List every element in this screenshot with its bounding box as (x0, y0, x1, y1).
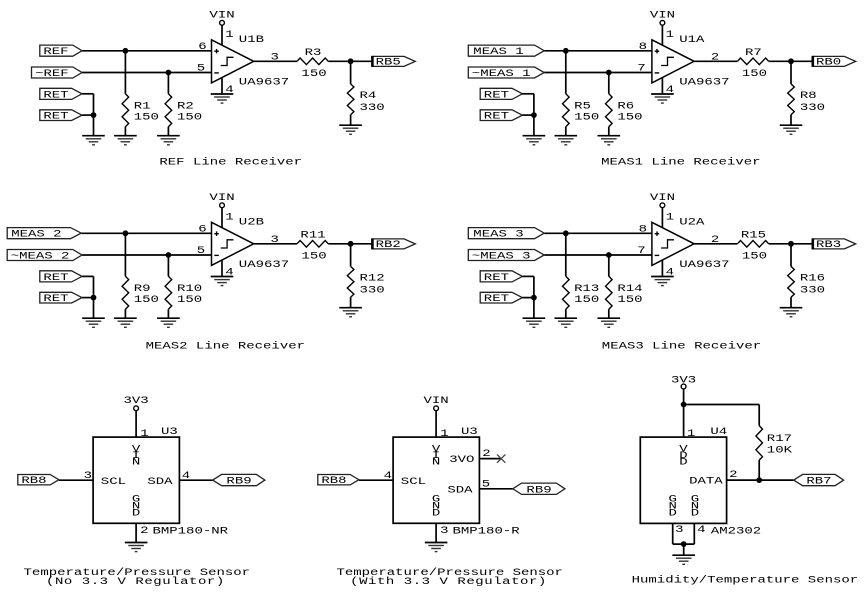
resistor R16 (788, 266, 795, 297)
svg-text:RB8: RB8 (21, 474, 46, 486)
junction (348, 58, 354, 64)
svg-text:7: 7 (637, 62, 645, 74)
input flag RET (40, 271, 82, 283)
wire (167, 73, 169, 94)
label R14 value 150 (617, 283, 642, 306)
junction (166, 252, 172, 258)
svg-text:150: 150 (742, 250, 767, 262)
wire (769, 60, 813, 62)
svg-text:UA9637: UA9637 (239, 259, 289, 271)
svg-text:UA9637: UA9637 (239, 76, 289, 88)
input flag MEAS 1 (468, 45, 544, 57)
wire (81, 232, 211, 234)
wire (544, 232, 652, 234)
svg-text:2: 2 (711, 51, 719, 63)
wire (254, 60, 297, 62)
resistor R5 (563, 94, 570, 127)
svg-text:MEAS 3: MEAS 3 (473, 228, 523, 240)
input flag RET (40, 88, 82, 100)
svg-text:150: 150 (301, 68, 326, 80)
output flag RB0 (813, 56, 856, 68)
wire (124, 51, 126, 94)
svg-text:330: 330 (360, 284, 385, 296)
svg-text:U1A: U1A (679, 34, 705, 46)
wire (221, 25, 223, 45)
svg-text:R6: R6 (617, 100, 634, 112)
svg-text:150: 150 (177, 111, 202, 123)
wire (124, 233, 126, 276)
junction (606, 70, 612, 76)
wire (328, 60, 372, 62)
ground (211, 277, 234, 286)
junction (348, 241, 354, 247)
svg-text:Humidity/Temperature Sensor: Humidity/Temperature Sensor (632, 574, 859, 586)
wire (565, 233, 567, 276)
ground (672, 555, 695, 564)
svg-text:RET: RET (484, 271, 509, 283)
junction (166, 70, 172, 76)
label R2 value 150 (177, 100, 202, 123)
svg-text:RET: RET (484, 89, 509, 101)
label VIN pin name (stacked) (132, 443, 141, 468)
svg-text:U3: U3 (461, 425, 478, 437)
power symbol VIN (650, 192, 675, 208)
svg-text:MEAS2 Line Receiver: MEAS2 Line Receiver (146, 340, 305, 352)
svg-text:UA9637: UA9637 (679, 259, 729, 271)
svg-text:2: 2 (140, 524, 148, 536)
wire (350, 297, 352, 308)
resistor R15 (737, 241, 768, 248)
svg-text:10K: 10K (767, 444, 793, 456)
svg-text:RET: RET (484, 110, 509, 122)
svg-text:4: 4 (384, 469, 392, 481)
label GND pin name (stacked) (432, 493, 440, 519)
ground (780, 308, 803, 317)
wire (124, 127, 126, 136)
wire (544, 50, 652, 52)
svg-text:R13: R13 (574, 283, 599, 295)
resistor R10 (165, 276, 172, 309)
input flag ~MEAS 2 (7, 250, 82, 262)
wire (93, 276, 95, 318)
svg-text:RET: RET (484, 292, 509, 304)
wire (522, 93, 534, 95)
wire (328, 243, 372, 245)
label VDD pin name (stacked) (679, 443, 688, 468)
svg-text:1: 1 (666, 29, 674, 41)
svg-text:MEAS 2: MEAS 2 (11, 228, 61, 240)
svg-text:R8: R8 (800, 90, 817, 102)
svg-text:150: 150 (177, 294, 202, 306)
ground (523, 136, 546, 145)
svg-text:RB2: RB2 (376, 238, 401, 250)
svg-text:DATA: DATA (689, 475, 723, 487)
op-amp U2A (652, 222, 694, 265)
svg-text:6: 6 (198, 41, 206, 53)
junction (531, 112, 537, 118)
svg-text:R16: R16 (800, 272, 825, 284)
svg-text:1: 1 (666, 211, 674, 223)
bidirectional flag RB7 (794, 474, 844, 487)
svg-text:RB0: RB0 (816, 56, 841, 68)
wire (221, 208, 223, 228)
svg-text:3: 3 (270, 51, 278, 63)
resistor R14 (606, 276, 613, 309)
resistor R12 (347, 266, 354, 297)
op-amp U1A (652, 40, 694, 83)
wire (608, 127, 610, 136)
svg-text:VIN: VIN (424, 394, 449, 406)
wire (693, 523, 695, 544)
wire (82, 93, 94, 95)
svg-text:RET: RET (43, 89, 68, 101)
input flag RET (40, 292, 82, 304)
input flag MEAS 3 (468, 228, 544, 240)
output flag RB5 (372, 56, 415, 68)
input flag RET (40, 110, 82, 122)
wire (221, 77, 223, 94)
wire (82, 50, 212, 52)
svg-text:RB3: RB3 (816, 238, 841, 250)
label R16 value 330 (800, 272, 825, 296)
wire (179, 479, 212, 481)
ground (651, 94, 674, 103)
wire (82, 254, 212, 256)
svg-text:R14: R14 (617, 283, 642, 295)
input flag REF (40, 45, 82, 57)
svg-text:2: 2 (482, 448, 490, 460)
svg-text:(With 3.3 V Regulator): (With 3.3 V Regulator) (350, 576, 547, 588)
svg-text:150: 150 (617, 111, 642, 123)
junction (123, 230, 129, 236)
svg-text:U2A: U2A (679, 216, 705, 228)
label R5 value 150 (574, 100, 599, 123)
label GND pin name 3 (stacked) (668, 493, 676, 519)
resistor R2 (165, 94, 172, 127)
junction (91, 112, 97, 118)
svg-text:330: 330 (360, 101, 385, 113)
power symbol VIN (424, 394, 449, 410)
svg-text:R10: R10 (177, 283, 202, 295)
op-amp U2B (212, 222, 254, 265)
ground (211, 94, 234, 103)
svg-text:MEAS3 Line Receiver: MEAS3 Line Receiver (602, 340, 761, 352)
svg-text:150: 150 (617, 294, 642, 306)
svg-text:5: 5 (197, 62, 205, 74)
svg-text:D: D (691, 507, 699, 519)
wire (59, 479, 93, 481)
resistor R17 (756, 426, 763, 461)
ground (114, 136, 137, 145)
svg-text:MEAS 1: MEAS 1 (473, 46, 523, 58)
wire (608, 73, 610, 94)
svg-text:8: 8 (639, 223, 647, 235)
ground (555, 136, 578, 145)
IC U4 AM2302 box (640, 437, 726, 523)
resistor R7 (737, 58, 768, 65)
wire (359, 479, 393, 481)
wire (608, 309, 610, 318)
wire (533, 276, 535, 318)
resistor R13 (563, 276, 570, 309)
svg-text:150: 150 (301, 250, 326, 262)
wire (350, 115, 352, 126)
wire (435, 523, 437, 542)
svg-text:U2B: U2B (239, 216, 264, 228)
wire (683, 544, 685, 555)
wire (167, 309, 169, 318)
input flag ~MEAS 3 (468, 250, 544, 262)
junction (563, 230, 569, 236)
svg-text:UA9637: UA9637 (679, 76, 729, 88)
label R17 value 10K (767, 433, 793, 456)
ground (555, 318, 578, 327)
svg-text:R4: R4 (360, 90, 377, 102)
wire (480, 458, 502, 460)
svg-text:U3: U3 (161, 425, 178, 437)
svg-text:3: 3 (270, 233, 278, 245)
svg-text:BMP180-R: BMP180-R (453, 525, 521, 537)
svg-text:2: 2 (711, 233, 719, 245)
svg-text:R5: R5 (574, 100, 591, 112)
wire (82, 72, 212, 74)
wire (672, 523, 674, 544)
svg-text:R3: R3 (305, 47, 322, 59)
svg-text:150: 150 (574, 111, 599, 123)
label R13 value 150 (574, 283, 599, 306)
svg-text:RET: RET (43, 110, 68, 122)
resistor R8 (788, 84, 795, 115)
wire (167, 255, 169, 276)
wire (533, 94, 535, 136)
wire (661, 208, 663, 228)
svg-text:2: 2 (729, 469, 737, 481)
svg-text:R15: R15 (741, 229, 766, 241)
svg-text:VIN: VIN (650, 9, 675, 21)
ground (114, 318, 137, 327)
resistor R11 (297, 241, 328, 248)
svg-text:D: D (432, 507, 440, 519)
no-connect X (497, 454, 505, 462)
label R4 value 330 (360, 90, 385, 114)
wire (661, 260, 663, 277)
label VIN pin name (stacked) (432, 443, 441, 468)
wire (790, 61, 792, 84)
svg-text:5: 5 (197, 245, 205, 257)
junction (606, 252, 612, 258)
power symbol VIN (650, 9, 675, 25)
ground (598, 318, 621, 327)
input flag RET (480, 110, 522, 122)
wire (350, 61, 352, 84)
svg-text:RB9: RB9 (526, 484, 551, 496)
svg-text:R2: R2 (177, 100, 194, 112)
wire (135, 523, 137, 542)
svg-text:4: 4 (697, 523, 705, 535)
label R8 value 330 (800, 90, 825, 114)
svg-text:~MEAS 2: ~MEAS 2 (11, 250, 70, 262)
svg-text:7: 7 (637, 245, 645, 257)
svg-text:REF Line Receiver: REF Line Receiver (159, 156, 302, 168)
svg-text:~MEAS 1: ~MEAS 1 (472, 67, 531, 79)
wire (82, 114, 94, 116)
svg-text:N: N (432, 456, 440, 468)
wire (790, 297, 792, 308)
wire (608, 255, 610, 276)
svg-text:BMP180-NR: BMP180-NR (153, 525, 229, 537)
junction (91, 295, 97, 301)
power symbol VIN (209, 192, 234, 208)
input flag RET (480, 292, 522, 304)
ground (598, 136, 621, 145)
wire (769, 243, 813, 245)
svg-text:3: 3 (675, 523, 683, 535)
wire (544, 72, 652, 74)
label R12 value 330 (360, 272, 385, 296)
svg-text:N: N (132, 456, 140, 468)
svg-text:RB7: RB7 (806, 475, 831, 487)
wire (522, 297, 534, 299)
wire (522, 275, 534, 277)
resistor R3 (297, 58, 328, 65)
svg-text:SDA: SDA (147, 475, 173, 487)
wire (350, 244, 352, 267)
label GND pin name 4 (stacked) (691, 493, 699, 519)
label R10 value 150 (177, 283, 202, 306)
svg-text:RET: RET (43, 271, 68, 283)
output flag RB2 (372, 238, 415, 250)
input flag MEAS 2 (7, 228, 81, 240)
svg-text:AM2302: AM2302 (711, 525, 761, 537)
junction (123, 48, 129, 54)
svg-text:150: 150 (134, 294, 159, 306)
ground (125, 543, 148, 552)
svg-text:330: 330 (800, 101, 825, 113)
wire (661, 25, 663, 45)
svg-text:3: 3 (440, 524, 448, 536)
junction (788, 58, 794, 64)
svg-text:VIN: VIN (650, 192, 675, 204)
power symbol 3V3 (124, 394, 149, 410)
wire (124, 309, 126, 318)
svg-text:D: D (668, 507, 676, 519)
wire (565, 127, 567, 136)
wire (683, 389, 685, 437)
IC U3 BMP180-R box (393, 437, 479, 523)
svg-text:3VO: 3VO (449, 454, 474, 466)
wire (565, 51, 567, 94)
svg-text:VIN: VIN (209, 9, 234, 21)
wire (758, 460, 760, 480)
label R15 value 150 (741, 229, 767, 262)
wire (684, 404, 760, 406)
svg-text:D: D (132, 507, 140, 519)
svg-text:RB8: RB8 (321, 474, 346, 486)
wire (135, 411, 137, 437)
output flag RB3 (813, 238, 856, 250)
label R9 value 150 (134, 283, 159, 306)
junction (563, 48, 569, 54)
power symbol 3V3 (671, 374, 696, 389)
resistor R1 (122, 94, 129, 127)
resistor R4 (347, 84, 354, 115)
resistor R9 (122, 276, 129, 309)
svg-text:3V3: 3V3 (124, 394, 149, 406)
svg-text:150: 150 (574, 294, 599, 306)
power symbol VIN (209, 9, 234, 25)
svg-text:U4: U4 (710, 425, 727, 437)
junction (531, 295, 537, 301)
label GND pin name (stacked) (132, 493, 140, 519)
svg-text:150: 150 (134, 111, 159, 123)
wire (790, 115, 792, 126)
svg-text:SCL: SCL (101, 475, 126, 487)
label R1 value 150 (134, 100, 159, 123)
wire (479, 488, 512, 490)
svg-text:1: 1 (225, 211, 233, 223)
svg-text:R9: R9 (134, 283, 151, 295)
svg-text:REF: REF (43, 46, 68, 58)
bidirectional flag RB9 (213, 474, 265, 487)
ground (780, 125, 803, 134)
svg-text:3: 3 (84, 469, 92, 481)
svg-text:MEAS1 Line Receiver: MEAS1 Line Receiver (601, 156, 760, 168)
ground (82, 136, 105, 145)
svg-text:6: 6 (198, 223, 206, 235)
wire (661, 77, 663, 94)
wire (82, 297, 94, 299)
label R6 value 150 (617, 100, 642, 123)
wire (544, 254, 652, 256)
wire (694, 243, 737, 245)
svg-text:D: D (679, 456, 687, 468)
wire (93, 94, 95, 136)
input flag RB8 (318, 474, 359, 486)
IC U3 BMP180-NR box (93, 437, 179, 523)
svg-text:R11: R11 (300, 229, 325, 241)
input flag ~REF (32, 67, 83, 79)
svg-text:R17: R17 (767, 433, 792, 445)
ground (339, 308, 362, 317)
wire (82, 275, 94, 277)
svg-text:(No 3.3 V Regulator): (No 3.3 V Regulator) (46, 576, 225, 588)
svg-text:330: 330 (800, 284, 825, 296)
ground (157, 136, 180, 145)
ground (339, 125, 362, 134)
ground (523, 318, 546, 327)
wire (758, 405, 760, 426)
svg-text:~REF: ~REF (35, 67, 69, 79)
op-amp U1B (212, 40, 254, 83)
label R11 value 150 (300, 229, 326, 262)
svg-text:8: 8 (639, 41, 647, 53)
label R7 value 150 (742, 47, 767, 80)
svg-text:SCL: SCL (401, 475, 426, 487)
svg-text:SDA: SDA (447, 484, 473, 496)
svg-text:1: 1 (225, 29, 233, 41)
ground (425, 543, 448, 552)
bidirectional flag RB9 (513, 483, 565, 496)
resistor R6 (606, 94, 613, 127)
wire (790, 244, 792, 267)
svg-text:RET: RET (43, 292, 68, 304)
svg-text:R12: R12 (360, 272, 385, 284)
svg-text:150: 150 (742, 68, 767, 80)
wire (167, 127, 169, 136)
ground (82, 318, 105, 327)
junction (788, 241, 794, 247)
wire (727, 479, 794, 481)
